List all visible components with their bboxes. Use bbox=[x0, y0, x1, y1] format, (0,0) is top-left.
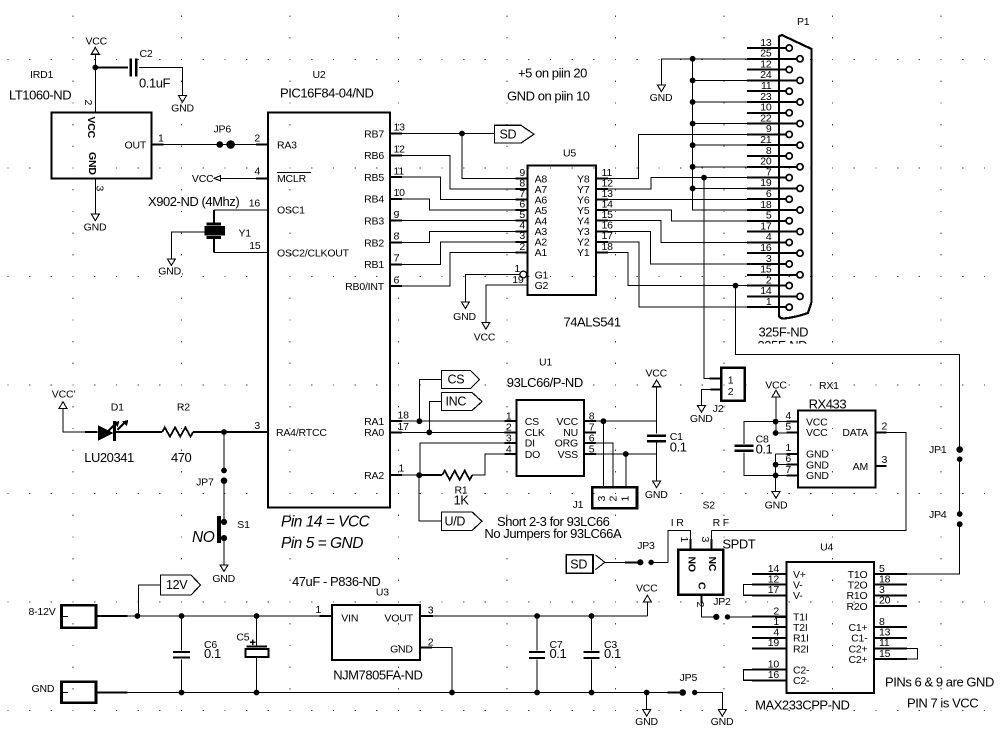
wire Y5 to P1 pin 5 bbox=[608, 210, 747, 221]
svg-text:2: 2 bbox=[882, 421, 888, 433]
svg-text:0.1: 0.1 bbox=[550, 646, 567, 661]
P1 pin 2 bbox=[786, 283, 792, 289]
svg-text:0.1: 0.1 bbox=[204, 646, 221, 661]
svg-text:NO: NO bbox=[192, 529, 215, 546]
svg-text:S1: S1 bbox=[237, 519, 250, 531]
svg-text:RB0/INT: RB0/INT bbox=[345, 281, 385, 293]
svg-text:JP2: JP2 bbox=[713, 596, 731, 608]
svg-text:17: 17 bbox=[398, 421, 410, 433]
svg-text:LU20341: LU20341 bbox=[84, 450, 134, 465]
ground GND (P1 bus) bbox=[657, 85, 665, 92]
svg-text:19: 19 bbox=[512, 274, 524, 286]
wire U1 ORG pin6 to J1 pin 2 bbox=[596, 443, 613, 488]
wire G2 to VCC bbox=[486, 285, 528, 322]
svg-text:GND.: GND. bbox=[158, 266, 183, 278]
svg-text:VOUT: VOUT bbox=[384, 613, 413, 625]
svg-text:GND: GND bbox=[645, 489, 668, 501]
svg-text:3: 3 bbox=[428, 605, 434, 617]
ground GND (JP5) bbox=[718, 710, 726, 717]
P1 pin 21 bbox=[797, 142, 803, 148]
wire bus to P1 pin 20 bbox=[693, 166, 747, 168]
wire ground rail bbox=[96, 692, 128, 694]
svg-text:3: 3 bbox=[882, 454, 888, 466]
P1 pin 3 bbox=[786, 261, 792, 267]
wire RB4 to U5 A5 pin6 bbox=[402, 199, 516, 210]
svg-text:C5: C5 bbox=[236, 631, 249, 643]
svg-text:JP7: JP7 bbox=[196, 476, 214, 488]
wire bus to P1 pin 19 bbox=[693, 187, 747, 189]
svg-text:3: 3 bbox=[254, 420, 260, 432]
svg-text:GND: GND bbox=[650, 92, 673, 104]
svg-text:NC: NC bbox=[706, 557, 718, 572]
svg-text:0.1: 0.1 bbox=[604, 646, 621, 661]
svg-text:OSC2/CLKOUT: OSC2/CLKOUT bbox=[277, 248, 350, 260]
node junction RA0/INC flag bbox=[426, 429, 432, 435]
clipped duplicate 325F-ND label bbox=[758, 338, 808, 353]
svg-text:3: 3 bbox=[596, 496, 608, 502]
node junction C6 top bbox=[179, 613, 185, 619]
wire JP4 to U4 T1O bbox=[907, 524, 960, 574]
ground GND (C2) bbox=[179, 96, 187, 103]
P1 pin 17 bbox=[797, 229, 803, 235]
node junction RX1 pin7 bbox=[773, 473, 779, 479]
wire S1 to GND bbox=[223, 538, 225, 565]
svg-text:U1: U1 bbox=[539, 357, 552, 369]
wire bus to P1 pin 22 bbox=[693, 123, 747, 125]
wire Y3 to P1 pin 3 bbox=[608, 231, 747, 264]
svg-text:RB1: RB1 bbox=[364, 259, 384, 271]
P1 pin 11 bbox=[786, 88, 792, 94]
node junction 12V tap bbox=[135, 613, 141, 619]
svg-text:GND on piin 10: GND on piin 10 bbox=[507, 89, 590, 104]
svg-text:GND: GND bbox=[635, 716, 658, 728]
svg-text:13: 13 bbox=[394, 122, 406, 134]
svg-text:OUT: OUT bbox=[125, 140, 147, 152]
wire bus to P1 pin 23 bbox=[693, 101, 747, 103]
wire JP7 to S1 bbox=[223, 481, 225, 522]
wire +5 rail VOUT to VCC bbox=[433, 615, 647, 617]
svg-text:10: 10 bbox=[394, 187, 406, 199]
node junction bus pin 22 bbox=[690, 121, 696, 127]
svg-text:0.1: 0.1 bbox=[670, 439, 687, 454]
node junction pin7/J2 bbox=[701, 175, 707, 181]
svg-text:0.1: 0.1 bbox=[756, 441, 773, 456]
power VCC (+5 rail) bbox=[646, 602, 648, 616]
ground GND (G1) bbox=[461, 302, 469, 309]
wire input rail to U3 VIN bbox=[96, 615, 128, 617]
wire J2 pin 2 to GND bbox=[711, 389, 722, 391]
U5 input A5 pin 6 bbox=[516, 209, 528, 211]
wire VSS junction down to J1 pin 1 bbox=[625, 454, 627, 487]
wire U3 GND pin to ground rail bbox=[432, 648, 452, 693]
svg-text:RA3: RA3 bbox=[277, 140, 297, 152]
node junction VCC/C2 bbox=[92, 65, 98, 71]
node junction RB7 bbox=[459, 131, 465, 137]
jumper box C2- pins 10-16 bbox=[744, 670, 787, 681]
svg-text:JP6: JP6 bbox=[214, 124, 232, 136]
ground GND (S1) bbox=[220, 565, 228, 572]
svg-text:S2: S2 bbox=[703, 499, 716, 511]
svg-text:11: 11 bbox=[394, 165, 405, 177]
wire bus to P1 pin 24 bbox=[693, 79, 747, 81]
svg-text:16: 16 bbox=[249, 198, 261, 210]
wire VCC arrow to MCLR pin 4 bbox=[221, 177, 268, 179]
named net flag U/D bbox=[442, 512, 483, 531]
node junction C7 top bbox=[534, 613, 540, 619]
svg-text:PIC16F84-04/ND: PIC16F84-04/ND bbox=[280, 86, 373, 101]
svg-text:SD: SD bbox=[570, 558, 587, 572]
P1 pin 15 bbox=[797, 272, 803, 278]
wire U1 VCC pin8 to C1/VCC bbox=[596, 420, 657, 422]
P1 pin 14 bbox=[797, 293, 803, 299]
node junction C7 bottom bbox=[534, 690, 540, 696]
node junction U3 GND bbox=[449, 690, 455, 696]
svg-text:RA0: RA0 bbox=[364, 427, 384, 439]
svg-text:7: 7 bbox=[785, 464, 791, 476]
svg-text:15: 15 bbox=[249, 240, 261, 252]
wire Y4 to P1 pin 4 bbox=[608, 221, 747, 243]
wire junction to JP7 bbox=[223, 432, 225, 470]
wire junction to UD flag bbox=[419, 475, 441, 521]
svg-text:2: 2 bbox=[254, 133, 260, 145]
P1 pin 20 bbox=[797, 164, 803, 170]
ground GND (LT1060 pin3) bbox=[91, 214, 99, 221]
svg-text:C2-: C2- bbox=[793, 675, 810, 687]
P1 pin 16 bbox=[797, 250, 803, 256]
capacitor C7 0.1 bbox=[536, 616, 538, 650]
svg-text:PINs 6 & 9 are GND: PINs 6 & 9 are GND bbox=[885, 675, 994, 690]
node junction C3 top bbox=[589, 613, 595, 619]
svg-text:4: 4 bbox=[254, 166, 260, 178]
svg-text:VIN: VIN bbox=[341, 613, 358, 625]
svg-text:9: 9 bbox=[394, 209, 400, 221]
wire RB3 to U5 A4 pin5 bbox=[402, 220, 516, 222]
svg-text:JP3: JP3 bbox=[637, 540, 655, 552]
wire RB6 to U5 A7 pin8 bbox=[402, 155, 516, 189]
svg-text:1K: 1K bbox=[453, 493, 469, 508]
S2 common pin 2 to JP2 bbox=[700, 595, 702, 604]
node junction RA2/DI/R1/UD bbox=[416, 472, 422, 478]
P1 pin 18 bbox=[797, 207, 803, 213]
svg-text:J1: J1 bbox=[573, 499, 584, 511]
svg-text:2: 2 bbox=[82, 100, 94, 106]
node junction bus pin 19 bbox=[690, 186, 696, 192]
svg-text:J2: J2 bbox=[713, 403, 724, 415]
wire RB5 to U5 A6 pin7 bbox=[402, 177, 516, 200]
svg-text:3: 3 bbox=[699, 537, 711, 543]
wire DATA to S2 RF bbox=[711, 432, 906, 530]
node junction RA1/CS flag bbox=[417, 418, 423, 424]
node junction bus pin 24 bbox=[690, 78, 696, 84]
svg-text:1: 1 bbox=[619, 496, 631, 502]
svg-text:93LC66/P-ND: 93LC66/P-ND bbox=[507, 375, 583, 390]
node junction bus pin 25 bbox=[690, 56, 696, 62]
connector J2 bbox=[721, 368, 745, 401]
svg-text:GND: GND bbox=[390, 644, 413, 656]
svg-text:U4: U4 bbox=[820, 541, 833, 553]
wire OSC1 to crystal bbox=[214, 209, 268, 211]
svg-text:5: 5 bbox=[785, 421, 791, 433]
P1 pin 1 bbox=[786, 304, 792, 310]
svg-text:2: 2 bbox=[519, 241, 525, 253]
node junction RX1 pin5 bbox=[773, 430, 779, 436]
node junction C6 bottom bbox=[179, 690, 185, 696]
P1 pin 10 bbox=[786, 110, 792, 116]
wire VCC to RX1 pins 4,5 bbox=[775, 397, 777, 433]
wire junction to C2 bbox=[95, 67, 128, 69]
svg-text:VCC’: VCC’ bbox=[52, 389, 76, 401]
wire OSC2 to crystal bbox=[214, 252, 268, 254]
svg-text:VCC: VCC bbox=[636, 583, 658, 595]
capacitor C8 0.1 bbox=[744, 422, 776, 445]
svg-text:RB7: RB7 bbox=[364, 128, 384, 140]
svg-text:GND: GND bbox=[212, 573, 235, 585]
wire crystal case to GND bbox=[171, 232, 204, 259]
svg-text:GND: GND bbox=[765, 499, 788, 511]
svg-text:RA1: RA1 bbox=[364, 416, 384, 428]
node junction C5 top bbox=[254, 613, 260, 619]
wire Y1 to P1 pin 2 bbox=[608, 252, 747, 285]
svg-text:1: 1 bbox=[315, 604, 321, 616]
svg-text:SPDT: SPDT bbox=[722, 536, 755, 551]
wire RB7 junction to U5 A8 pin9 bbox=[462, 134, 516, 179]
wire pin8 junction down to J1 pin 3 bbox=[602, 421, 604, 487]
node junction VSS/J1-1 bbox=[623, 451, 629, 457]
C5 polarity mark + bbox=[250, 641, 255, 643]
svg-text:IRD1: IRD1 bbox=[30, 69, 53, 81]
S2 pin 1 riser bbox=[668, 530, 690, 562]
svg-text:VCC: VCC bbox=[474, 332, 496, 344]
svg-text:P1: P1 bbox=[797, 16, 810, 28]
svg-text:12: 12 bbox=[394, 144, 406, 156]
node junction RA4/JP7 bbox=[221, 429, 227, 435]
svg-text:U5: U5 bbox=[563, 148, 576, 160]
wire U1 DI down to RA2 node bbox=[420, 443, 505, 475]
svg-text:X902-ND (4Mhz): X902-ND (4Mhz) bbox=[148, 194, 239, 209]
wire RB1 to U5 A2 pin3 bbox=[402, 242, 516, 264]
svg-text:C2+: C2+ bbox=[849, 654, 868, 666]
wire SD to JP3 bbox=[605, 561, 641, 563]
wire U1 VSS pin5 to GND/C1 bbox=[596, 453, 657, 455]
svg-text:GND: GND bbox=[806, 470, 829, 482]
svg-text:MAX233CPP-ND: MAX233CPP-ND bbox=[755, 698, 849, 713]
wire Y8 to P1 pin 9 bbox=[608, 134, 747, 178]
wire Y7 to P1 pin 7 bbox=[608, 178, 747, 189]
svg-text:Pin 14 = VCC: Pin 14 = VCC bbox=[281, 514, 371, 531]
wire junction to CS flag bbox=[419, 380, 441, 422]
node junction pin8/J1-3 bbox=[601, 418, 607, 424]
node junction pin2/serial link bbox=[733, 283, 739, 289]
wire R2 to RA4 bbox=[193, 431, 268, 433]
wire RB7 to SD flag bbox=[402, 133, 495, 135]
wire JP2 to U4 T1I bbox=[728, 616, 787, 618]
svg-text:GND: GND bbox=[690, 413, 713, 425]
P1 pin 9 bbox=[786, 131, 792, 137]
svg-text:2: 2 bbox=[728, 386, 734, 398]
wire RB2 to U5 A3 pin4 bbox=[402, 231, 516, 242]
svg-text:+5 on piin 20: +5 on piin 20 bbox=[518, 66, 587, 81]
svg-text:JP1: JP1 bbox=[929, 444, 947, 456]
wire JP1 to JP4 bbox=[959, 459, 961, 514]
svg-text:2: 2 bbox=[608, 496, 620, 502]
P1 pin 12 bbox=[786, 67, 792, 73]
MCLR overline bbox=[277, 172, 311, 174]
wire RX1 pin1 gnd chain bbox=[776, 453, 787, 455]
ground GND (RX1) bbox=[772, 492, 780, 499]
svg-text:INC: INC bbox=[446, 395, 467, 409]
svg-text:VCC: VCC bbox=[765, 379, 787, 391]
svg-text:NJM7805FA-ND: NJM7805FA-ND bbox=[333, 668, 422, 683]
named net flag CS bbox=[442, 371, 480, 389]
svg-text:C: C bbox=[696, 582, 708, 590]
power VCC (G2, inverted arrow) bbox=[482, 322, 490, 329]
wire VCC to LT1060 pin 2 bbox=[94, 54, 96, 112]
svg-text:8-12V: 8-12V bbox=[29, 606, 56, 618]
svg-text:C2: C2 bbox=[140, 48, 153, 60]
wire bus to GND arrow bbox=[661, 59, 692, 85]
U5 input A8 pin 9 bbox=[516, 178, 528, 180]
P1 pin 23 bbox=[797, 99, 803, 105]
capacitor C2 bbox=[130, 59, 133, 77]
wire LT1060 pin3 to GND bbox=[94, 178, 96, 214]
svg-text:I R: I R bbox=[671, 517, 684, 529]
svg-text:No Jumpers for 93LC66A: No Jumpers for 93LC66A bbox=[484, 526, 622, 541]
svg-text:JP5: JP5 bbox=[680, 672, 698, 684]
svg-text:R2I: R2I bbox=[793, 643, 809, 655]
svg-text:PIN 7 is VCC: PIN 7 is VCC bbox=[907, 696, 978, 711]
svg-text:8: 8 bbox=[394, 231, 400, 243]
svg-text:GND: GND bbox=[453, 311, 476, 323]
capacitor C6 0.1 bbox=[181, 616, 183, 650]
svg-text:RX1: RX1 bbox=[819, 380, 839, 392]
svg-text:VCC: VCC bbox=[86, 36, 108, 48]
U5 input A7 pin 8 bbox=[516, 188, 528, 190]
svg-text:DATA: DATA bbox=[842, 427, 868, 439]
svg-text:R2O: R2O bbox=[847, 601, 868, 613]
ground GND (rail) bbox=[646, 693, 648, 710]
svg-text:JP4: JP4 bbox=[929, 509, 947, 521]
svg-text:Y1: Y1 bbox=[239, 227, 252, 239]
ground GND (J2) bbox=[698, 406, 706, 413]
wire G1 to GND bbox=[465, 275, 520, 302]
svg-text:G2: G2 bbox=[535, 280, 549, 292]
named net flag SD (RB7) bbox=[495, 125, 535, 143]
P1 pin 22 bbox=[797, 121, 803, 127]
svg-text:470: 470 bbox=[171, 450, 192, 465]
wire JP3 to S2 pin 1 bbox=[651, 561, 668, 563]
svg-text:7: 7 bbox=[394, 253, 400, 265]
svg-text:74ALS541: 74ALS541 bbox=[564, 315, 621, 330]
svg-text:12V: 12V bbox=[166, 578, 188, 592]
capacitor C3 0.1 bbox=[591, 616, 593, 650]
svg-text:6: 6 bbox=[394, 274, 400, 286]
P1 pin 8 bbox=[786, 153, 792, 159]
node junction GND arrow bbox=[644, 690, 650, 696]
jumper box C2+ pins 11-15 bbox=[874, 648, 918, 659]
svg-text:Y1: Y1 bbox=[577, 247, 590, 259]
svg-text:47uF - P836-ND: 47uF - P836-ND bbox=[292, 574, 380, 589]
wire bus to P1 pin 21 bbox=[693, 144, 747, 146]
P1 pin 5 bbox=[786, 218, 792, 224]
svg-text:R F: R F bbox=[713, 517, 729, 529]
U5 input A1 pin 2 bbox=[516, 251, 528, 253]
svg-text:RX433: RX433 bbox=[809, 397, 847, 412]
U5 input A2 pin 3 bbox=[516, 241, 528, 243]
P1 pin 24 bbox=[797, 77, 803, 83]
wire U4 T1O to JP4 riser bbox=[907, 573, 960, 575]
svg-text:RB6: RB6 bbox=[364, 150, 384, 162]
svg-text:VCC: VCC bbox=[192, 173, 214, 185]
U5 input A4 pin 5 bbox=[516, 220, 528, 222]
svg-text:NO: NO bbox=[686, 557, 698, 572]
svg-text:OSC1: OSC1 bbox=[277, 205, 305, 217]
resistor R1 1K bbox=[419, 474, 442, 476]
U5 input A6 pin 7 bbox=[516, 199, 528, 201]
svg-text:1: 1 bbox=[399, 463, 405, 475]
named net flag 12V bbox=[139, 585, 161, 616]
svg-text:A1: A1 bbox=[535, 247, 548, 259]
S2 pin 3 riser bbox=[710, 531, 712, 540]
wire Y2 to P1 pin 1 bbox=[608, 242, 747, 307]
svg-text:RB4: RB4 bbox=[364, 194, 384, 206]
wire C2 to GND bbox=[139, 68, 183, 96]
wire JP5 to GND bbox=[695, 693, 723, 710]
svg-text:GND: GND bbox=[32, 683, 55, 695]
svg-text:GND: GND bbox=[711, 716, 734, 728]
svg-text:RB3: RB3 bbox=[364, 216, 384, 228]
node junction bus pin 21 bbox=[690, 142, 696, 148]
ground GND (crystal) bbox=[167, 259, 175, 266]
P1 pin 6 bbox=[786, 196, 792, 202]
svg-text:18: 18 bbox=[602, 241, 614, 253]
wire RB0 to U5 A1 pin2 bbox=[402, 252, 516, 286]
svg-text:RA4/RTCC: RA4/RTCC bbox=[276, 427, 327, 439]
wire junction to INC flag bbox=[429, 402, 441, 433]
svg-text:SD: SD bbox=[500, 127, 517, 141]
svg-text:2: 2 bbox=[694, 602, 706, 608]
svg-text:RB2: RB2 bbox=[364, 237, 384, 249]
svg-text:GND: GND bbox=[86, 152, 98, 175]
wire GND bus vertical (P1 gnd pins) bbox=[693, 59, 747, 210]
wire Y6 to P1 pin 6 bbox=[608, 198, 747, 200]
svg-text:18: 18 bbox=[398, 410, 410, 422]
svg-text:U/D: U/D bbox=[445, 514, 466, 528]
P1 pin 19 bbox=[797, 185, 803, 191]
svg-text:VCC: VCC bbox=[806, 427, 828, 439]
svg-text:RB5: RB5 bbox=[364, 172, 384, 184]
svg-text:U2: U2 bbox=[313, 69, 326, 81]
wire VCC to D1 bbox=[63, 409, 98, 433]
svg-text:LT1060-ND: LT1060-ND bbox=[9, 88, 71, 103]
wire OUT to RA3 via JP6 bbox=[151, 144, 163, 146]
svg-text:VCC: VCC bbox=[646, 367, 668, 379]
node junction C3 bottom bbox=[589, 690, 595, 696]
wire VCC to C1 bbox=[656, 387, 658, 434]
svg-text:R2: R2 bbox=[177, 402, 190, 414]
node junction bus pin 23 bbox=[690, 99, 696, 105]
svg-text:V-: V- bbox=[793, 590, 803, 602]
U5 input A3 pin 4 bbox=[516, 230, 528, 232]
svg-text:325F-ND: 325F-ND bbox=[759, 325, 809, 340]
capacitor C1 0.1 bbox=[647, 434, 666, 436]
svg-text:DO: DO bbox=[525, 449, 540, 461]
svg-text:RA2: RA2 bbox=[364, 470, 384, 482]
named net flag SD (serial data) bbox=[566, 555, 593, 574]
svg-text:1: 1 bbox=[158, 133, 164, 145]
svg-text:1: 1 bbox=[728, 374, 734, 386]
svg-text:AM: AM bbox=[853, 461, 868, 473]
svg-text:1: 1 bbox=[766, 296, 772, 308]
